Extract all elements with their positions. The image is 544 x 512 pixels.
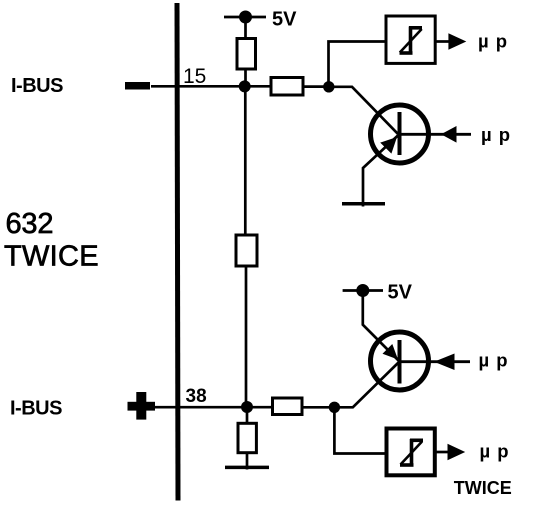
Q2 base bar — [398, 340, 402, 384]
wire R3 down to node 38 — [245, 266, 248, 407]
minus polarity symbol — [125, 82, 150, 90]
svg-text:632: 632 — [6, 208, 54, 240]
Q1 base wire from microprocessor — [400, 133, 472, 136]
node 38 junction dot — [241, 401, 253, 413]
wire node D down to comparator U2 — [334, 407, 386, 453]
svg-text:15: 15 — [183, 65, 206, 88]
svg-text:µ p: µ p — [481, 124, 511, 145]
node D junction dot — [329, 402, 340, 413]
svg-text:µ p: µ p — [479, 350, 509, 371]
Q1 base bar — [398, 112, 402, 155]
resistor R3 (middle) — [236, 235, 257, 266]
resistor R2 (top series) — [271, 78, 303, 96]
arrow to microprocessor (bottom output) — [448, 444, 466, 461]
Q2 collector wire from 5V — [363, 291, 400, 362]
ground (top) — [342, 202, 385, 206]
wire node 38 to resistor R5 — [246, 407, 249, 424]
resistor R1 (top pull-up) — [237, 39, 256, 70]
wire node D to Q2 emitter — [334, 362, 399, 408]
svg-text:5V: 5V — [388, 282, 413, 304]
bus bar (I-BUS vertical line) — [177, 3, 178, 501]
5V rail dot (top) — [239, 11, 252, 24]
hysteresis symbol U1 — [400, 27, 423, 55]
svg-text:µ p: µ p — [480, 441, 510, 462]
comparator box U1 — [386, 16, 435, 63]
wire U1 output — [435, 40, 449, 43]
wire plus to node 38 — [155, 406, 247, 409]
wire node 38 to resistor R4 — [247, 406, 273, 409]
Q2 collector arrow — [383, 344, 399, 360]
wire R4 to node D — [302, 406, 334, 409]
arrow to microprocessor (top output) — [448, 33, 466, 50]
wire R1 to node 15 — [244, 69, 247, 87]
5V rail dot (bottom) — [356, 284, 369, 297]
svg-text:I-BUS: I-BUS — [10, 398, 62, 420]
hysteresis symbol U2 — [400, 439, 423, 467]
comparator box U2 — [387, 429, 435, 476]
wire R5 to ground — [246, 453, 249, 470]
svg-text:TWICE: TWICE — [454, 478, 512, 498]
Q1 emitter wire to ground — [363, 134, 400, 207]
svg-text:µ p: µ p — [478, 31, 508, 52]
arrow into Q2 base — [434, 354, 455, 371]
wire node B to Q1 collector — [329, 87, 398, 134]
Q2 base wire from microprocessor — [400, 360, 471, 363]
wire U2 output — [435, 451, 448, 454]
resistor R4 (bottom series) — [273, 398, 303, 415]
svg-text:38: 38 — [186, 386, 207, 407]
wire node 15 down to resistor R3 — [244, 87, 247, 236]
svg-text:5V: 5V — [272, 9, 297, 31]
svg-text:TWICE: TWICE — [4, 241, 99, 273]
ground (bottom) — [225, 466, 269, 470]
transistor Q2 body — [371, 332, 429, 390]
wire node 15 to resistor R2 — [244, 85, 272, 88]
wire minus to node 15 — [151, 85, 245, 88]
node B junction dot — [323, 81, 334, 92]
wire node B up to comparator U1 — [329, 42, 387, 88]
Q1 emitter arrow — [380, 137, 397, 154]
transistor Q1 body — [371, 105, 429, 163]
arrow into Q1 base — [441, 126, 457, 143]
node 15 junction dot — [239, 80, 251, 92]
5V rail (top) — [224, 16, 266, 19]
5V rail (bottom) — [343, 289, 383, 292]
svg-text:I-BUS: I-BUS — [11, 75, 63, 97]
plus polarity symbol — [128, 402, 156, 411]
wire 5V to resistor R1 — [244, 17, 247, 40]
resistor R5 (bottom pull-down) — [238, 423, 256, 452]
wire R2 to node B — [303, 85, 329, 88]
